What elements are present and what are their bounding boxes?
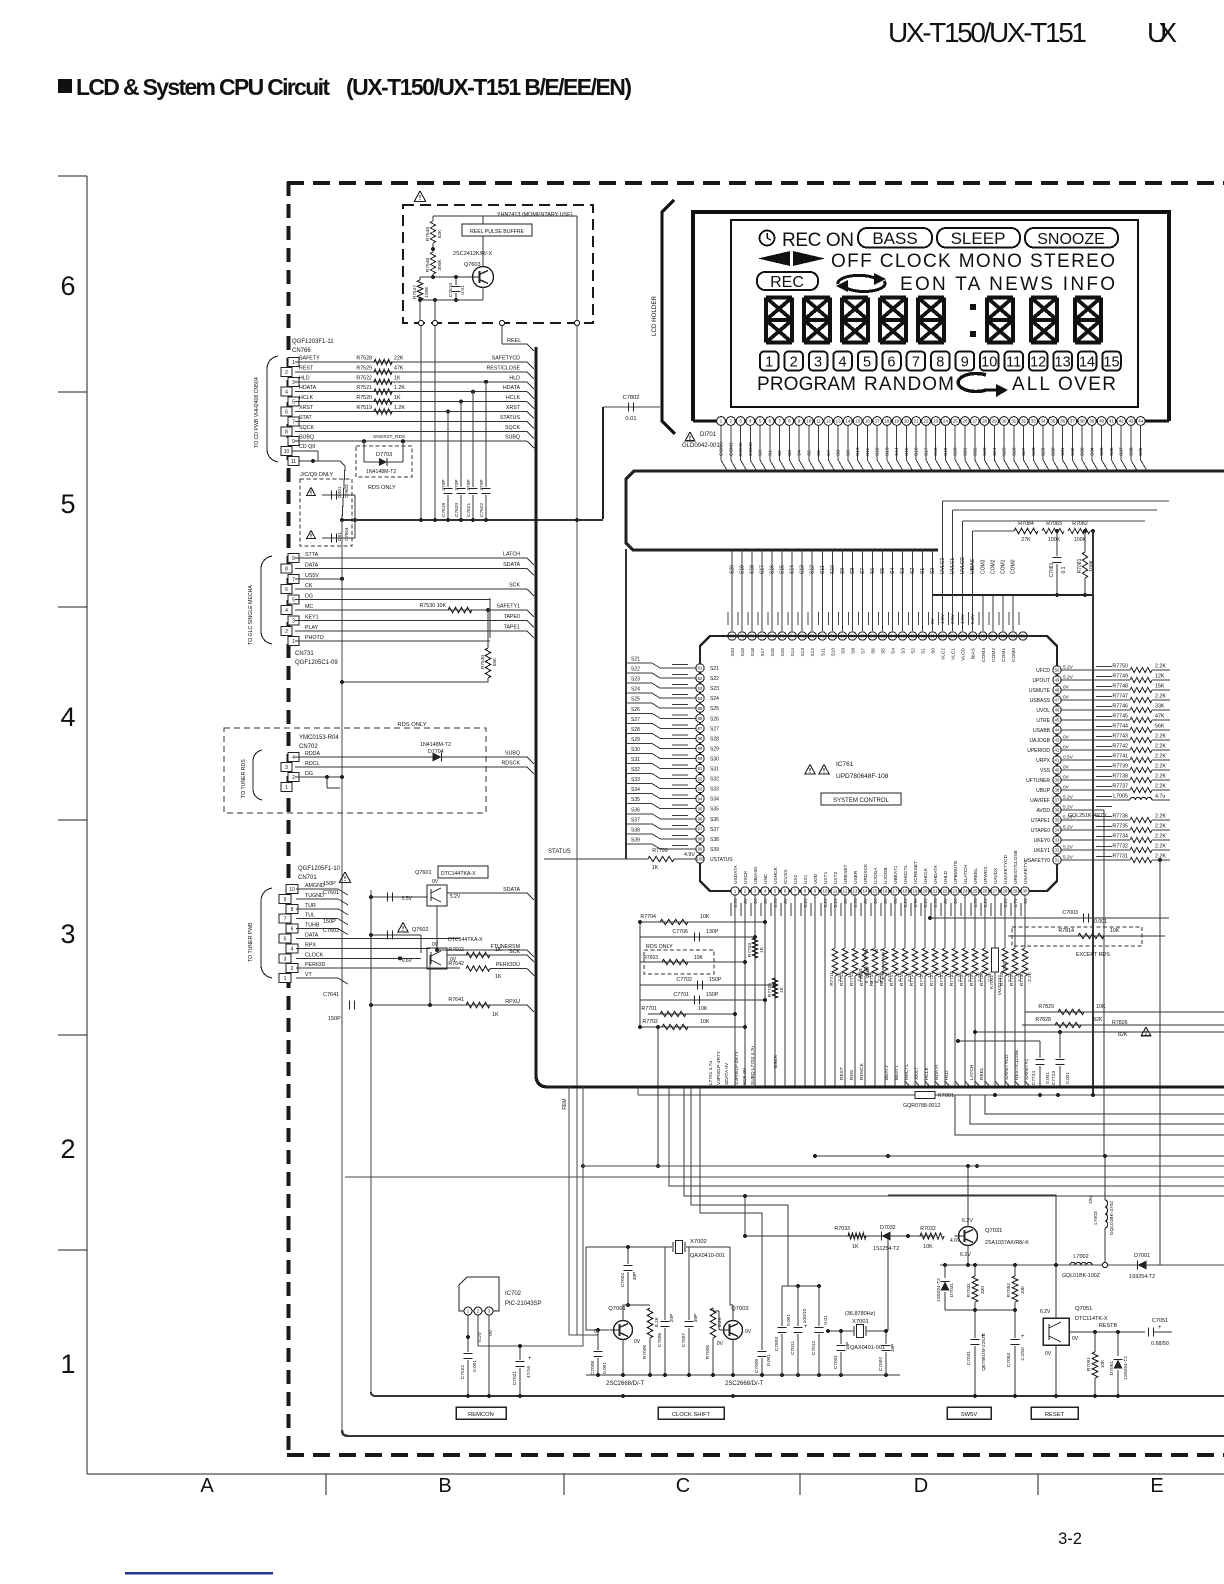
- icon left arrow: [758, 251, 790, 266]
- R7549 resistor: [432, 216, 434, 221]
- REEL PULSE BUFFER label box: [462, 224, 532, 236]
- svg-text:82: 82: [698, 676, 703, 681]
- IC761 top pin 59: [938, 612, 940, 625]
- CN766 row wire HLD: [295, 381, 527, 383]
- svg-text:S38: S38: [631, 827, 640, 833]
- LCD pin 29 lead S24: [990, 417, 999, 426]
- svg-text:1: 1: [285, 785, 288, 791]
- svg-text:14: 14: [845, 419, 850, 424]
- svg-text:URPX: URPX: [1036, 758, 1051, 764]
- LCD pin 41 lead S36: [1107, 417, 1116, 426]
- CN766 row wire HCLK: [295, 401, 527, 403]
- svg-text:R7052: R7052: [1006, 1283, 1012, 1297]
- svg-text:KEY1: KEY1: [305, 614, 319, 620]
- svg-text:URESET: URESET: [843, 864, 849, 884]
- svg-text:C7004: C7004: [620, 1273, 626, 1287]
- svg-text:S32: S32: [710, 777, 719, 783]
- IC761 bottom pin 4 UNC: [761, 887, 769, 895]
- left ruler line: [86, 176, 88, 1474]
- CLOCK SHIFT box: [658, 1407, 724, 1419]
- svg-text:C7620: C7620: [454, 503, 460, 517]
- LCD pin 7 lead S2: [775, 417, 784, 426]
- svg-text:S0: S0: [930, 568, 936, 574]
- CN766 pin 2: [281, 367, 292, 376]
- bottom ruler line: [87, 1473, 1224, 1475]
- footer blue bar: [125, 1572, 273, 1575]
- LCD pin 14 lead S9: [843, 417, 852, 426]
- svg-text:1K: 1K: [852, 1244, 859, 1250]
- C7008 capacitor: [593, 1350, 602, 1352]
- LCD pin 39 lead S34: [1087, 417, 1096, 426]
- IC761 right pin 35 UTAPE1: [1053, 816, 1061, 824]
- svg-text:SAFETYCD: SAFETYCD: [492, 356, 520, 362]
- svg-text:S18: S18: [933, 447, 939, 456]
- svg-text:TUL: TUL: [305, 913, 315, 919]
- LCD pin 25 lead S20: [951, 417, 960, 426]
- svg-text:2: 2: [60, 1134, 75, 1164]
- LCD pin 15 lead S10: [853, 417, 862, 426]
- svg-text:1: 1: [60, 1349, 75, 1379]
- LCD pin 21 lead S16: [912, 417, 921, 426]
- svg-text:11: 11: [1006, 355, 1021, 371]
- LCD pin 30 lead S25: [1000, 417, 1009, 426]
- IC761 left pin 99 S39: [696, 845, 704, 853]
- svg-text:18: 18: [903, 889, 908, 894]
- svg-text:1K: 1K: [779, 986, 785, 993]
- svg-text:36: 36: [1055, 808, 1060, 813]
- svg-text:9: 9: [961, 355, 969, 371]
- svg-text:S20: S20: [730, 565, 736, 574]
- svg-text:13: 13: [853, 889, 858, 894]
- svg-text:SW5V: SW5V: [961, 1412, 978, 1418]
- svg-text:UPERIOD: UPERIOD: [1027, 748, 1050, 754]
- svg-text:S30: S30: [631, 747, 640, 753]
- svg-text:S38: S38: [1128, 447, 1134, 456]
- svg-text:+: +: [1158, 1325, 1162, 1331]
- svg-text:V3P001P-4R7Y: V3P001P-4R7Y: [716, 1050, 722, 1085]
- svg-text:R7732: R7732: [1112, 844, 1128, 850]
- C7021 electrolytic: [519, 1346, 521, 1360]
- svg-text:USABB: USABB: [1033, 728, 1051, 734]
- svg-text:S13: S13: [800, 565, 806, 574]
- svg-text:86: 86: [698, 716, 703, 721]
- IC761 bottom pin 27 UAVDX: [991, 887, 999, 895]
- IC761 bottom pin 12 URESET: [841, 887, 849, 895]
- C7012 capacitor: [818, 1286, 820, 1326]
- svg-text:REST: REST: [299, 365, 314, 371]
- IC761 top pin 54: [988, 612, 990, 625]
- C7001 capacitor: [840, 1331, 842, 1344]
- svg-text:HDATA: HDATA: [503, 385, 521, 391]
- svg-text:UXT2: UXT2: [833, 871, 839, 884]
- svg-text:RANDOM: RANDOM: [864, 374, 954, 395]
- svg-text:R7716: R7716: [879, 972, 885, 986]
- corner x1056: [888, 1195, 1056, 1318]
- svg-text:100K: 100K: [1048, 537, 1061, 543]
- svg-text:(UX-T150/UX-T151 B/E/EE/EN): (UX-T150/UX-T151 B/E/EE/EN): [346, 74, 632, 100]
- svg-text:USMUTE: USMUTE: [1029, 688, 1051, 694]
- D7704 diode: [295, 756, 527, 758]
- Q7031 collector down: [967, 1246, 969, 1266]
- CN766 row wire HDATA: [295, 391, 527, 393]
- CN731 row wire DATA: [295, 567, 527, 569]
- LCD pin 32 lead S27: [1019, 417, 1028, 426]
- ruler tick: [58, 606, 87, 608]
- svg-text:S22: S22: [631, 667, 640, 673]
- CN766 row wire SQCK: [295, 430, 527, 432]
- CN731 row wire CK: [295, 588, 527, 590]
- IC761 top pin 75: [781, 549, 783, 631]
- svg-text:41: 41: [1055, 758, 1060, 763]
- LCD pin 33 lead S28: [1029, 417, 1038, 426]
- svg-text:S11: S11: [820, 565, 826, 574]
- svg-text:SAFETYCD: SAFETYCD: [1004, 1054, 1010, 1080]
- svg-text:10: 10: [981, 355, 997, 371]
- ruler tick: [58, 1034, 87, 1036]
- svg-text:PIC-21043SP: PIC-21043SP: [505, 1301, 542, 1307]
- LCD pin 26 lead S21: [961, 417, 970, 426]
- svg-text:D7051: D7051: [1109, 1361, 1115, 1375]
- svg-text:UHCLK: UHCLK: [923, 867, 929, 884]
- svg-text:RDS ONLY: RDS ONLY: [646, 944, 673, 950]
- CN702 pin 3: [281, 763, 292, 772]
- top segment y1286: [782, 1285, 819, 1287]
- svg-text:41: 41: [1109, 419, 1114, 424]
- svg-text:S17: S17: [760, 648, 766, 657]
- svg-text:TO CD PWB VHH2408 CN504: TO CD PWB VHH2408 CN504: [254, 377, 260, 448]
- R7530 55K vertical: [487, 610, 489, 648]
- svg-text:S6: S6: [816, 450, 822, 456]
- svg-text:4.9V: 4.9V: [684, 852, 695, 858]
- svg-text:0V: 0V: [930, 617, 936, 624]
- R7051 vertical resistor: [1094, 1332, 1096, 1352]
- IC761 top pin 51: [1018, 612, 1020, 625]
- svg-text:25: 25: [973, 889, 978, 894]
- svg-text:COM3: COM3: [748, 442, 754, 456]
- svg-text:46: 46: [1055, 708, 1060, 713]
- svg-text:V3P001P-4R7Y: V3P001P-4R7Y: [734, 1050, 740, 1085]
- LCD pin 42 lead S37: [1117, 417, 1126, 426]
- svg-text:E: E: [1150, 1475, 1163, 1497]
- IC761 top pin 71: [821, 549, 823, 631]
- svg-text:UX-T150/UX-T151: UX-T150/UX-T151: [888, 17, 1087, 48]
- svg-text:42: 42: [1055, 748, 1060, 753]
- right bank vertical 1104: [1103, 810, 1105, 1156]
- svg-text:19: 19: [894, 419, 899, 424]
- svg-text:4.6V: 4.6V: [960, 613, 966, 624]
- svg-text:S9: S9: [845, 450, 851, 456]
- svg-text:4: 4: [291, 946, 294, 952]
- resistor R7081: [1084, 531, 1086, 552]
- svg-text:44: 44: [1055, 728, 1060, 733]
- svg-text:S8: S8: [850, 648, 856, 654]
- svg-text:REST/CLOSE: REST/CLOSE: [486, 365, 520, 371]
- svg-text:56K: 56K: [1155, 724, 1165, 730]
- svg-text:R7737: R7737: [1112, 784, 1128, 790]
- svg-text:C7621: C7621: [466, 503, 472, 517]
- LCD pin 24 lead S19: [941, 417, 950, 426]
- svg-text:UHDATA: UHDATA: [933, 864, 939, 884]
- svg-text:S35: S35: [1099, 447, 1105, 456]
- svg-text:TAPE0: TAPE0: [504, 614, 520, 620]
- IC761 top pin 68: [851, 549, 853, 631]
- svg-text:7: 7: [912, 355, 920, 371]
- IC761 right pin 38 UBUP: [1053, 786, 1061, 794]
- IC761 left pin 81 S21: [696, 664, 704, 672]
- svg-text:C7601: C7601: [323, 890, 339, 896]
- VSS 0V rail: [933, 594, 1093, 596]
- IC761 left pin 90 S30: [696, 754, 704, 762]
- svg-text:USAFETYCD: USAFETYCD: [1003, 854, 1009, 884]
- svg-text:3: 3: [292, 380, 295, 386]
- svg-text:45: 45: [1055, 718, 1060, 723]
- svg-text:DTC114TK-X: DTC114TK-X: [1075, 1316, 1108, 1322]
- svg-text:27: 27: [972, 419, 977, 424]
- svg-text:83: 83: [698, 686, 703, 691]
- IC761 left pin 93 S33: [696, 784, 704, 792]
- svg-text:TO GLC SINGLE MECHA: TO GLC SINGLE MECHA: [248, 585, 254, 645]
- CN731 pin 7 US5V: [288, 574, 299, 583]
- svg-text:RDS: RDS: [858, 968, 863, 978]
- svg-text:HCLK: HCLK: [924, 1066, 930, 1080]
- LCD pin 20 lead S15: [902, 417, 911, 426]
- IC761 left pin 84 S24: [696, 694, 704, 702]
- R7642 PERIODU: [466, 966, 490, 971]
- svg-text:1: 1: [292, 639, 295, 645]
- IC761 top pin 61: [922, 549, 924, 631]
- svg-text:3: 3: [292, 618, 295, 624]
- resistor R7701: [648, 1013, 735, 1015]
- LCD pin 12 lead S7: [824, 417, 833, 426]
- svg-text:1K: 1K: [495, 974, 502, 980]
- bus wire upper: [626, 471, 1224, 550]
- svg-text:S35: S35: [710, 807, 719, 813]
- svg-text:USBASS: USBASS: [1030, 698, 1051, 704]
- svg-text:R7829: R7829: [1038, 1004, 1054, 1010]
- wire reel-left vertical: [420, 326, 422, 520]
- svg-text:R7747: R7747: [1112, 694, 1128, 700]
- CN731 pin 4 MC: [281, 606, 292, 615]
- svg-text:C7007: C7007: [681, 1333, 687, 1347]
- svg-text:10K: 10K: [700, 914, 710, 920]
- svg-text:31: 31: [1055, 858, 1060, 863]
- svg-text:S6: S6: [870, 648, 876, 654]
- svg-text:1.2K: 1.2K: [394, 385, 405, 391]
- svg-text:S16: S16: [770, 648, 776, 657]
- svg-text:UAVREF: UAVREF: [1030, 798, 1050, 804]
- svg-text:X7002: X7002: [690, 1239, 707, 1245]
- svg-text:R7748: R7748: [1112, 684, 1128, 690]
- svg-text:S20: S20: [953, 447, 959, 456]
- svg-text:ONLY: ONLY: [865, 966, 870, 978]
- svg-text:29: 29: [1013, 889, 1018, 894]
- resistor R7713: [854, 895, 856, 948]
- svg-text:S22: S22: [972, 447, 978, 456]
- IC761 left pin 89 S29: [696, 744, 704, 752]
- 14-segment digit 8: [1075, 298, 1101, 343]
- svg-text:QAX0401-001: QAX0401-001: [850, 1345, 885, 1351]
- svg-text:HDATA: HDATA: [299, 385, 317, 391]
- svg-text:DG: DG: [305, 771, 313, 777]
- R7031 vertical resistor: [974, 1265, 976, 1276]
- LCD pin 5 lead S0: [756, 417, 765, 426]
- svg-text:VSS: VSS: [1040, 768, 1051, 774]
- stair wires: [669, 1087, 1224, 1186]
- C7002 capacitor: [885, 1331, 887, 1344]
- svg-text:R7548: R7548: [425, 258, 431, 272]
- RESTB wire: [1069, 1331, 1145, 1333]
- svg-text:SUBQ: SUBQ: [299, 435, 314, 441]
- svg-text:2.2K: 2.2K: [1155, 664, 1166, 670]
- svg-text:2.2K: 2.2K: [1155, 784, 1166, 790]
- svg-text:YHN2413 (MOMENTARY USE): YHN2413 (MOMENTARY USE): [497, 212, 573, 218]
- svg-text:S14: S14: [894, 447, 900, 456]
- svg-text:QGF1205F1-10: QGF1205F1-10: [298, 866, 341, 872]
- svg-text:47/16: 47/16: [526, 1366, 532, 1378]
- svg-text:TUHB: TUHB: [305, 923, 320, 929]
- svg-text:C7602: C7602: [323, 928, 339, 934]
- svg-text:RPX: RPX: [305, 942, 316, 948]
- svg-text:COM2: COM2: [738, 442, 744, 456]
- IC761 right pin 47 USBASS: [1053, 696, 1061, 704]
- svg-text:GLD0042-001: GLD0042-001: [682, 443, 720, 449]
- svg-text:R7549: R7549: [425, 227, 431, 241]
- svg-text:C7701: C7701: [673, 992, 689, 998]
- svg-text:12K: 12K: [1155, 674, 1165, 680]
- CN701 pin 2 PERIOD: [286, 964, 298, 973]
- svg-text:42: 42: [1119, 419, 1124, 424]
- CN731 pin 8 DATA: [281, 564, 292, 573]
- svg-text:90: 90: [698, 756, 703, 761]
- IC761 left pin 86 S26: [696, 714, 704, 722]
- svg-text:19: 19: [913, 889, 918, 894]
- svg-text:S27: S27: [631, 717, 640, 723]
- svg-text:R7735: R7735: [1112, 824, 1128, 830]
- svg-text:6: 6: [285, 587, 288, 593]
- IC761 warning triangles: [805, 765, 815, 775]
- LCD pin 6 lead S1: [765, 417, 774, 426]
- IC761 bottom pin 22 UHLD: [941, 887, 949, 895]
- svg-text:C: C: [676, 1475, 690, 1497]
- CN766 row wire SUBQ: [295, 440, 527, 442]
- svg-text:S14: S14: [790, 565, 796, 574]
- svg-text:C7021: C7021: [512, 1371, 518, 1385]
- IC761 top pin 77: [761, 549, 763, 631]
- svg-text:1K: 1K: [652, 865, 659, 871]
- SLEEP box: [937, 228, 1020, 248]
- vertical 583 IC702 link: [478, 1087, 583, 1346]
- CN731 pin 1 PHOTO: [288, 637, 299, 646]
- svg-text:2.2K: 2.2K: [1155, 774, 1166, 780]
- svg-text:4: 4: [292, 755, 295, 761]
- bottom pin wire: [744, 895, 746, 1087]
- svg-text:+: +: [981, 1334, 985, 1340]
- svg-text:S12: S12: [810, 648, 816, 657]
- svg-text:1S1254-T2: 1S1254-T2: [873, 1246, 899, 1252]
- svg-text:2SC2668/D/-T: 2SC2668/D/-T: [725, 1381, 764, 1387]
- IC761 bottom pin 14 URDSCK: [861, 887, 869, 895]
- svg-text:S31: S31: [1060, 447, 1066, 456]
- svg-text:C7012: C7012: [811, 1341, 817, 1355]
- resistor R7082: [1068, 528, 1090, 533]
- svg-text:0V: 0V: [1045, 1351, 1052, 1357]
- svg-text:C7622: C7622: [479, 503, 485, 517]
- svg-text:GQL01BK-4702: GQL01BK-4702: [1109, 1201, 1115, 1235]
- svg-text:REM: REM: [562, 1098, 568, 1109]
- left long vertical 371 0V: [370, 890, 372, 1392]
- svg-text:L7002: L7002: [1073, 1254, 1088, 1260]
- svg-text:29: 29: [992, 419, 997, 424]
- IC761 left pin 100 USTATUS: [696, 855, 704, 863]
- svg-text:SAFETY1: SAFETY1: [1024, 1058, 1030, 1080]
- C7051 electrolytic: [1147, 1327, 1149, 1336]
- svg-text:S1: S1: [767, 450, 773, 456]
- Q7601 to FTUNERSM: [436, 906, 438, 950]
- svg-text:S10: S10: [830, 565, 836, 574]
- capacitor C7604: [307, 531, 316, 539]
- IC761 bottom pin 19 UCRESET: [911, 887, 919, 895]
- svg-text:UBUP: UBUP: [1036, 788, 1051, 794]
- svg-text:S34: S34: [1089, 447, 1095, 456]
- resistor R7704: [640, 921, 765, 923]
- svg-text:UKEY0: UKEY0: [1034, 838, 1051, 844]
- svg-text:18P: 18P: [845, 1342, 851, 1351]
- svg-text:270P: 270P: [479, 479, 485, 490]
- K7002 component: [994, 895, 996, 948]
- svg-text:2.2K: 2.2K: [1155, 764, 1166, 770]
- svg-text:CD Q9: CD Q9: [299, 444, 315, 450]
- LCD pin 40 lead S35: [1097, 417, 1106, 426]
- IC761 left pin 82 S22: [696, 674, 704, 682]
- svg-text:S35: S35: [631, 797, 640, 803]
- svg-text:14: 14: [863, 889, 868, 894]
- svg-text:3-2: 3-2: [1058, 1530, 1082, 1548]
- svg-text:43: 43: [1055, 738, 1060, 743]
- svg-text:0.01: 0.01: [625, 416, 636, 422]
- svg-text:S21: S21: [631, 657, 640, 663]
- CN731 row wire PLAY: [295, 630, 527, 632]
- capacitor C7701: [640, 999, 765, 1001]
- CN731 row wire KEY1: [295, 619, 527, 621]
- svg-text:SUBQ L7702 4.7u: SUBQ L7702 4.7u: [750, 1046, 756, 1085]
- svg-text:R7723: R7723: [949, 972, 955, 986]
- ruler tick bottom: [1037, 1474, 1039, 1495]
- svg-text:39: 39: [1055, 778, 1060, 783]
- svg-text:55K: 55K: [492, 657, 498, 666]
- svg-text:47K: 47K: [1155, 714, 1165, 720]
- svg-text:C7619: C7619: [441, 503, 447, 517]
- svg-text:2.2K: 2.2K: [1155, 834, 1166, 840]
- IC761 top pin 72: [811, 549, 813, 631]
- CN731 pin 2 PLAY: [281, 626, 292, 635]
- svg-text:3: 3: [285, 765, 288, 771]
- svg-text:12: 12: [843, 889, 848, 894]
- svg-text:7: 7: [292, 419, 295, 425]
- svg-text:47: 47: [1055, 698, 1060, 703]
- left feed vertical 640: [639, 922, 641, 1027]
- svg-text:SCK 0V: SCK 0V: [742, 1067, 748, 1085]
- svg-text:R7749: R7749: [1112, 674, 1128, 680]
- IC761 top pin 64: [891, 549, 893, 631]
- svg-text:0.68/50: 0.68/50: [1151, 1341, 1169, 1347]
- svg-text:R7051: R7051: [1086, 1357, 1092, 1371]
- svg-text:17: 17: [875, 419, 880, 424]
- R7814 EXCEPT RDS dashed box: [1008, 935, 1165, 937]
- svg-text:26: 26: [963, 419, 968, 424]
- svg-text:0.01: 0.01: [337, 532, 342, 541]
- svg-text:21: 21: [914, 419, 919, 424]
- svg-text:Q7031: Q7031: [985, 1228, 1002, 1234]
